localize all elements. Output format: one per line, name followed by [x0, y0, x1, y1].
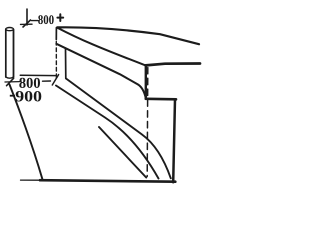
steep near edge diagonal: [10, 85, 43, 179]
hidden corner dashed vertical: [146, 68, 149, 177]
right wall vertical: [173, 99, 175, 182]
fender post bottom cap: [6, 77, 14, 78]
beam far top edge: [57, 27, 199, 44]
leader dash to 800: [32, 20, 39, 22]
corner vertical: [145, 65, 147, 98]
plus sign after 800: [57, 14, 63, 21]
lower right ledge line: [146, 98, 176, 101]
berm bottom diagonal B: [56, 86, 159, 179]
label 800 top: [38, 15, 54, 24]
fender post left edge: [5, 29, 7, 77]
left dimension tick 2: [52, 75, 58, 85]
beam left hidden edge dashed: [55, 42, 57, 79]
beam front top edge: [57, 28, 145, 66]
fender post top cap: [6, 28, 14, 31]
berm far edge horizontal: [20, 74, 55, 76]
top right ledge line: [146, 64, 200, 66]
level mark vertical: [26, 9, 28, 25]
berm top diagonal A: [66, 79, 171, 179]
left dimension tick 1: [7, 78, 14, 86]
level mark base bar: [21, 23, 33, 25]
ground line: [21, 179, 41, 181]
dash after 800: [43, 80, 51, 82]
extra diagonal C: [99, 127, 146, 178]
fender post right edge: [13, 30, 15, 78]
beam front bottom edge: [56, 44, 145, 98]
wall left edge: [65, 48, 67, 78]
beam left end edge solid: [55, 28, 57, 40]
level mark slash tick: [23, 20, 31, 27]
label 800 left: [19, 78, 40, 88]
left dimension line: [5, 81, 20, 83]
label -900 (minus stroke + digits): [10, 95, 15, 97]
ground line main: [40, 180, 175, 182]
